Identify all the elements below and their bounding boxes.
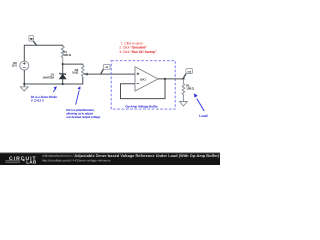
svg-text:ultimateelectronics / Adjustab: ultimateelectronics / Adjustable Zener-b… xyxy=(42,154,220,158)
arrow from R2 note to potentiometer xyxy=(76,86,81,104)
junction D1 bottom xyxy=(62,83,64,85)
label Vin 12 V xyxy=(11,61,17,68)
blue annotation: D1 zener note xyxy=(31,95,58,103)
svg-text:100 Ω: 100 Ω xyxy=(63,53,71,57)
svg-text:our desired output voltage: our desired output voltage xyxy=(66,115,100,119)
wire node ref: R1 bottom to R2 top xyxy=(63,64,83,65)
label R1 100 Ω xyxy=(63,50,71,57)
red instruction text xyxy=(119,42,157,54)
potentiometer R2 xyxy=(81,65,87,77)
ground (right, under RL) xyxy=(179,102,187,106)
wire Vin bottom to ground junction xyxy=(23,70,25,84)
arrow from Load to RL xyxy=(194,93,204,111)
wire wiper to op-amp + input xyxy=(84,73,135,75)
svg-text:12 V: 12 V xyxy=(11,63,17,67)
svg-text:ref: ref xyxy=(105,66,108,69)
flag Vin (net label box top-left) xyxy=(29,35,37,45)
footer bar xyxy=(0,153,220,165)
label R2 5 kΩ xyxy=(72,68,79,75)
op-amp OA1 xyxy=(135,67,158,91)
label RL 100 Ω xyxy=(186,84,194,91)
ground (left, under Vin) xyxy=(20,84,28,91)
footer CircuitLab logo xyxy=(6,156,37,165)
svg-text:Op-Amp Voltage Buffer: Op-Amp Voltage Buffer xyxy=(125,104,158,108)
wire top net: Vin top to R1 top xyxy=(24,45,62,61)
svg-text:LAB: LAB xyxy=(26,160,37,165)
wire feedback loop xyxy=(121,79,166,99)
resistor RL xyxy=(182,79,185,102)
svg-text:100 Ω: 100 Ω xyxy=(186,86,194,90)
junction output/feedback xyxy=(164,78,166,80)
junction at RL top xyxy=(182,78,184,80)
resistor R1 xyxy=(61,46,64,64)
wire bottom net xyxy=(24,77,83,84)
flag out (net label at output) xyxy=(183,69,192,79)
junction at Vin/ground xyxy=(23,83,25,85)
svg-text:Load: Load xyxy=(199,114,207,118)
svg-text:3. Click “Run DC Sweep”: 3. Click “Run DC Sweep” xyxy=(119,50,157,54)
dashed region box (Op-Amp Voltage Buffer) xyxy=(111,61,175,109)
svg-text:5 kΩ: 5 kΩ xyxy=(72,71,79,75)
svg-text:V_Z=5.1 V: V_Z=5.1 V xyxy=(31,99,45,103)
svg-text:http://circuitlab.com/c/7443/z: http://circuitlab.com/c/7443/zener-volta… xyxy=(42,159,111,163)
wire op-amp output xyxy=(158,78,183,80)
arrow from D1 note to diode xyxy=(53,86,57,92)
blue annotation: R2 potentiometer note xyxy=(66,108,100,119)
svg-text:OA1: OA1 xyxy=(140,77,146,81)
label D1 1N4733A xyxy=(43,73,56,80)
junction R1/D1/R2 xyxy=(62,63,64,65)
zener diode D1 xyxy=(59,64,66,84)
flag ref (net label on wiper wire) xyxy=(101,64,110,73)
svg-text:out: out xyxy=(187,70,191,73)
voltage source V1 (Vin) xyxy=(20,61,29,70)
svg-text:1N4733A: 1N4733A xyxy=(43,75,56,79)
